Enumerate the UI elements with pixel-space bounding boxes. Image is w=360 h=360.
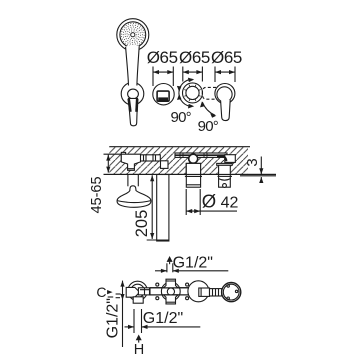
- dim H / bottom G1/2: [125, 309, 201, 333]
- svg-text:Ø65: Ø65: [179, 48, 210, 67]
- svg-text:Ø65: Ø65: [211, 48, 242, 67]
- hand shower handle/neck: [126, 45, 140, 85]
- left union nut pentagon: [126, 287, 140, 297]
- shower elbow block: [121, 154, 140, 170]
- hub screw dots: [156, 283, 189, 300]
- body top extension line: [104, 153, 124, 155]
- hanging rod (205): [157, 175, 169, 242]
- pipe joint lines: [145, 288, 150, 295]
- lever wall box: [225, 155, 236, 163]
- main pipe: [138, 288, 199, 295]
- svg-text:G1/2": G1/2": [173, 254, 213, 271]
- spindle rod: [175, 153, 227, 157]
- channel left end step: [121, 152, 125, 154]
- lever handle outer circle: [215, 84, 235, 104]
- arc arrowhead left-upper: [177, 86, 182, 92]
- dim O42: [186, 189, 238, 215]
- lever arc arrowhead top: [200, 101, 205, 107]
- wall bottom line overdraw: [104, 173, 277, 175]
- lever handle grip: [221, 100, 231, 121]
- elbow stem tick: [128, 168, 135, 170]
- bottom port arrow up: [136, 335, 142, 343]
- lever trim profile: [219, 165, 231, 187]
- rotation arc lower (ring): [179, 93, 193, 107]
- top port tab: [164, 279, 179, 288]
- wall bottom surface line: [104, 173, 277, 175]
- top port arrow up: [167, 256, 173, 264]
- svg-text:3: 3: [244, 158, 261, 166]
- dim 205: [133, 175, 169, 240]
- left union circle: [128, 281, 147, 300]
- holder stem below wall: [128, 175, 138, 187]
- escutcheon face lines: [185, 175, 202, 177]
- svg-text:C: C: [96, 284, 106, 300]
- hand shower head rim circle: [120, 22, 146, 48]
- shower holder bracket circle: [121, 82, 144, 105]
- lever screw dot: [223, 184, 227, 188]
- dim arrow O65 #2: [183, 67, 203, 82]
- diverter in-wall rect: [186, 163, 200, 174]
- diverter button dark bar: [158, 97, 168, 100]
- wall top line: [109, 146, 250, 148]
- dim 3 (plate offset): [240, 157, 276, 184]
- svg-text:45-65: 45-65: [89, 176, 105, 213]
- lever rotation arc: [202, 102, 215, 115]
- lever handle inner circle: [217, 87, 232, 102]
- svg-text:90°: 90°: [198, 118, 218, 135]
- hand shower center nozzle: [131, 33, 135, 37]
- center hub circle: [161, 282, 180, 301]
- lever spindle hook: [217, 156, 226, 161]
- holder bell rim arc: [117, 201, 151, 203]
- control ring outer circle: [183, 83, 203, 103]
- dim C vertical: [116, 281, 125, 347]
- cartridge circle: [189, 154, 198, 163]
- rotation arc upper (ring): [179, 79, 193, 93]
- hand shower head outer circle: [117, 19, 149, 51]
- diverter button square: [157, 91, 169, 101]
- svg-text:90°: 90°: [171, 109, 191, 126]
- svg-text:205: 205: [133, 210, 151, 238]
- hub pipe clearing: [150, 288, 196, 295]
- svg-text:H: H: [134, 342, 144, 358]
- holder clamp wedge right: [135, 99, 138, 112]
- left bottom port box: [133, 297, 143, 303]
- pipe lines over ball: [164, 287, 178, 289]
- right hub circle: [188, 281, 209, 302]
- dashed lever (rotated position): [202, 87, 216, 99]
- pipe channel segment lines: [144, 155, 156, 161]
- svg-text:Ø 42: Ø 42: [202, 191, 239, 212]
- label C arrow: [107, 290, 113, 294]
- arc arrowhead bottom: [188, 104, 194, 109]
- small foot fitting: [161, 161, 169, 169]
- right hub inner box: [199, 288, 210, 296]
- holder bell: [117, 186, 151, 208]
- left union inner circle: [131, 284, 144, 297]
- diverter knob front view circle: [153, 84, 174, 105]
- handle shaft below bracket: [128, 98, 137, 125]
- hub ball joint: [167, 288, 174, 295]
- lever arc arrowhead bottom: [210, 113, 216, 117]
- bracket inner ellipse: [128, 89, 139, 99]
- arc arrowhead left-lower: [177, 94, 182, 100]
- svg-text:Ø65: Ø65: [147, 48, 178, 67]
- valve body channel: [121, 155, 160, 161]
- dim 45-65: [89, 155, 110, 214]
- outlet elbow circle: [222, 283, 241, 302]
- pipe inner line: [140, 289, 197, 291]
- ribbed connector: [210, 289, 222, 296]
- control ring knurl ticks: [184, 85, 200, 101]
- dim arrow O65 #1: [153, 67, 173, 87]
- lever flange plate: [217, 163, 233, 165]
- svg-text:G1/2": G1/2": [143, 310, 183, 327]
- dim arrow O65 #3: [215, 67, 235, 83]
- outlet screw dots: [227, 285, 238, 300]
- control ring inner circle: [186, 86, 199, 99]
- diverter knob profile: [186, 163, 200, 187]
- svg-text:G1/2": G1/2": [104, 298, 121, 338]
- holder clamp wedge left: [129, 99, 131, 112]
- arc arrowhead top: [188, 78, 194, 83]
- bottom port tab: [164, 295, 179, 304]
- dim top G1/2: [155, 254, 228, 273]
- hand shower spray face dots: [121, 23, 145, 47]
- wall hatched band: [109, 147, 248, 175]
